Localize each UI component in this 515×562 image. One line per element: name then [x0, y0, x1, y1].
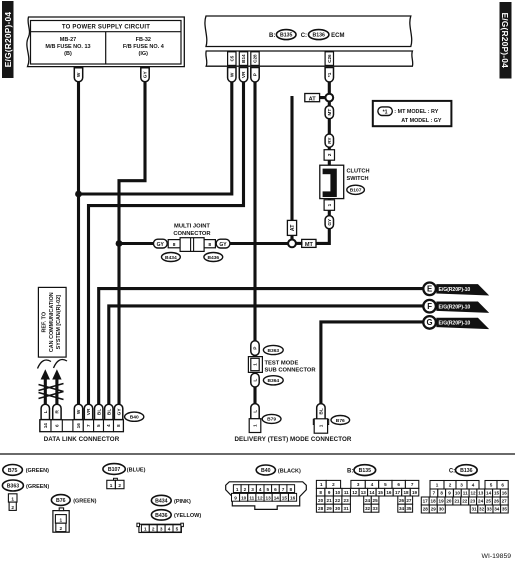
- svg-text:2: 2: [11, 505, 14, 510]
- svg-text:(B): (B): [64, 51, 72, 57]
- svg-text:33: 33: [487, 507, 493, 512]
- svg-text:GY: GY: [116, 408, 122, 416]
- svg-text:DELIVERY (TEST) MODE CONNECTOR: DELIVERY (TEST) MODE CONNECTOR: [234, 436, 351, 443]
- wire label P test mode: [251, 341, 259, 356]
- svg-text:B76: B76: [336, 418, 345, 424]
- svg-text:B107: B107: [108, 467, 121, 473]
- svg-text:16: 16: [290, 496, 296, 501]
- svg-text:2: 2: [327, 153, 332, 156]
- svg-text:19: 19: [439, 499, 445, 504]
- CAN R arrow wire: [52, 369, 61, 405]
- clutch switch B107: [320, 165, 370, 198]
- svg-text:(BLACK): (BLACK): [278, 468, 301, 474]
- svg-text:F: F: [427, 302, 432, 311]
- svg-text:BL: BL: [319, 408, 325, 414]
- page tab E/G(R20P)-04 right: [500, 2, 512, 79]
- svg-text:18: 18: [403, 490, 409, 495]
- svg-text:MT: MT: [305, 242, 314, 248]
- power supply circuit box: [27, 17, 184, 67]
- svg-text:30: 30: [335, 506, 341, 511]
- svg-text:1: 1: [320, 482, 323, 487]
- svg-text:28: 28: [423, 507, 429, 512]
- svg-text:8: 8: [173, 242, 176, 248]
- connector icon B40: [226, 482, 307, 510]
- svg-text:18: 18: [431, 499, 437, 504]
- wire label W ECM: [228, 68, 236, 82]
- svg-text:16: 16: [386, 490, 392, 495]
- wire AT branch upper: [306, 96, 326, 99]
- svg-text:21: 21: [454, 499, 460, 504]
- svg-text:B436: B436: [155, 513, 168, 519]
- wire P from ECM C28 to test mode sub connector: [253, 82, 256, 342]
- svg-text:B40: B40: [261, 468, 271, 474]
- svg-text:7: 7: [86, 424, 91, 427]
- svg-text:B:: B:: [347, 468, 353, 474]
- wire label RY clutch: [325, 134, 333, 147]
- wire label BL DLC pin5: [95, 404, 103, 419]
- svg-text:GY: GY: [157, 242, 165, 248]
- CAN L arrow wire: [41, 369, 50, 405]
- svg-text:L: L: [43, 410, 49, 413]
- svg-text:E: E: [427, 285, 432, 294]
- svg-text:25: 25: [373, 498, 379, 503]
- svg-text:B436: B436: [207, 255, 219, 261]
- arrow flag E E/G(R20P)-10: [423, 283, 489, 296]
- svg-text:5: 5: [176, 527, 179, 532]
- svg-text:GY: GY: [327, 218, 333, 226]
- wire label VR ECM: [239, 68, 247, 82]
- svg-text:1: 1: [253, 363, 258, 366]
- svg-text:31: 31: [344, 506, 350, 511]
- oval B107 legend: [103, 464, 146, 475]
- svg-text:B363: B363: [7, 483, 20, 489]
- ECM box: [205, 16, 413, 66]
- svg-text:E/G(R20P)-10: E/G(R20P)-10: [439, 304, 471, 310]
- svg-text:1: 1: [253, 424, 258, 427]
- connector icon B107: [107, 478, 124, 488]
- data link connector B40 bar: [40, 420, 124, 432]
- svg-text:BL: BL: [96, 409, 102, 415]
- svg-text:G: G: [427, 318, 433, 327]
- MJC pin 8 right: [204, 240, 215, 249]
- svg-text:28: 28: [318, 506, 324, 511]
- wire pin2 to switch: [328, 160, 331, 166]
- svg-text:22: 22: [335, 498, 341, 503]
- arrow flag G E/G(R20P)-10: [423, 316, 489, 329]
- DATA LINK CONNECTOR caption: [44, 436, 120, 443]
- svg-text:14: 14: [43, 423, 48, 429]
- svg-text:24: 24: [478, 499, 484, 504]
- svg-text:27: 27: [502, 499, 508, 504]
- wire label GY DLC: [114, 404, 122, 419]
- oval B436 legend: [151, 510, 201, 520]
- svg-text:4: 4: [371, 482, 374, 487]
- wire MJC run right to junction: [230, 242, 288, 245]
- svg-text:7: 7: [433, 491, 436, 496]
- connector pinout B136: [421, 465, 508, 513]
- junction W: [75, 191, 82, 198]
- connector pinout B135: [316, 465, 418, 513]
- wire RY to pin 2: [328, 147, 331, 151]
- DELIVERY (TEST) MODE CONNECTOR caption: [234, 436, 351, 443]
- wire label L B79: [251, 404, 259, 419]
- wire VR from ECM B14 to DATA LINK pin 7: [89, 82, 244, 406]
- svg-text:11: 11: [344, 490, 349, 495]
- svg-text:CAN COMMUNICATION: CAN COMMUNICATION: [49, 292, 55, 352]
- svg-text:3: 3: [160, 527, 163, 532]
- oval B364: [263, 376, 283, 385]
- svg-text:MULTI JOINT: MULTI JOINT: [174, 224, 210, 230]
- oval B363 legend: [2, 480, 49, 491]
- ECM pin C26: [325, 52, 333, 66]
- svg-text:17: 17: [395, 490, 401, 495]
- svg-text:4: 4: [106, 424, 111, 427]
- svg-text:4: 4: [168, 527, 171, 532]
- svg-text:15: 15: [378, 490, 384, 495]
- svg-text:9: 9: [234, 496, 237, 501]
- svg-text:11: 11: [463, 491, 468, 496]
- svg-text:33: 33: [373, 506, 379, 511]
- wire label BL DLC pin4: [105, 404, 113, 419]
- wire label GY MJC right: [216, 239, 230, 248]
- wire GY from fuse to MJC junction and pin 8: [119, 82, 145, 406]
- svg-text:16: 16: [76, 423, 81, 429]
- svg-text:C26: C26: [327, 54, 332, 63]
- wire label *1 ECM: [325, 68, 333, 83]
- svg-text:C:: C:: [449, 468, 455, 474]
- connector B79 pin 1: [249, 419, 261, 433]
- svg-text:9: 9: [448, 491, 451, 496]
- svg-text:20: 20: [446, 499, 452, 504]
- svg-text:B434: B434: [165, 255, 177, 261]
- svg-text:31: 31: [471, 507, 477, 512]
- svg-text:REF. TO: REF. TO: [41, 312, 47, 333]
- svg-text:AT MODEL : GY: AT MODEL : GY: [401, 118, 442, 124]
- svg-text:22: 22: [462, 499, 468, 504]
- wire label L DLC: [41, 404, 49, 419]
- oval B40 legend: [256, 465, 301, 475]
- svg-text:13: 13: [361, 490, 367, 495]
- wire label R DLC: [53, 404, 61, 419]
- oval B363: [263, 345, 283, 354]
- svg-text:MB-27: MB-27: [60, 37, 77, 43]
- svg-text:B75: B75: [8, 468, 18, 474]
- svg-text:VR: VR: [241, 71, 247, 78]
- svg-text:*1: *1: [383, 110, 388, 116]
- svg-text:2: 2: [59, 526, 62, 531]
- wire W from fuse to DATA LINK pin 16: [77, 82, 80, 406]
- svg-text:2: 2: [449, 483, 452, 488]
- svg-text:20: 20: [318, 498, 324, 503]
- TEST MODE SUB CONNECTOR caption: [265, 360, 317, 373]
- svg-text:W: W: [76, 72, 82, 77]
- svg-text:4: 4: [472, 483, 475, 488]
- svg-text:24: 24: [365, 498, 371, 503]
- svg-text:6: 6: [397, 482, 400, 487]
- svg-text:1: 1: [59, 518, 62, 523]
- svg-text:F/B FUSE NO. 4: F/B FUSE NO. 4: [123, 44, 165, 50]
- wire label GY fuse: [141, 68, 149, 82]
- svg-text:5: 5: [384, 482, 387, 487]
- svg-text:1: 1: [236, 487, 239, 492]
- svg-text:12: 12: [257, 496, 263, 501]
- svg-text:(GREEN): (GREEN): [26, 484, 49, 490]
- svg-text:CLUTCH: CLUTCH: [347, 169, 370, 175]
- svg-text:14: 14: [274, 496, 280, 501]
- svg-text:B79: B79: [267, 417, 276, 423]
- twisted pair break arcs: [38, 360, 68, 369]
- test mode sub connector box: [248, 357, 262, 373]
- svg-text:B40: B40: [130, 415, 139, 421]
- svg-text:CONNECTOR: CONNECTOR: [173, 231, 211, 237]
- svg-text:5: 5: [266, 487, 269, 492]
- svg-text:5: 5: [96, 424, 101, 427]
- wire *1 from ECM C26: [328, 82, 331, 94]
- svg-text:15: 15: [282, 496, 288, 501]
- wire W from ECM C5 jog: [79, 82, 232, 194]
- svg-text:1: 1: [11, 497, 14, 502]
- multi joint connector label: [173, 224, 211, 237]
- svg-text:4: 4: [259, 487, 262, 492]
- svg-text:C:: C:: [301, 33, 307, 39]
- svg-text:6: 6: [501, 483, 504, 488]
- svg-text:8: 8: [319, 490, 322, 495]
- svg-text:23: 23: [344, 498, 350, 503]
- svg-text:17: 17: [423, 499, 429, 504]
- wire label MT below C26: [325, 101, 333, 118]
- connector icon B75/B363: [8, 494, 17, 511]
- svg-text:27: 27: [406, 498, 412, 503]
- svg-text:B135: B135: [280, 33, 293, 39]
- svg-text:B76: B76: [56, 498, 66, 504]
- svg-text:(IG): (IG): [139, 51, 149, 57]
- svg-text:30: 30: [439, 507, 445, 512]
- wire AT bypass left vertical: [292, 98, 294, 240]
- svg-text:VR: VR: [86, 408, 92, 415]
- svg-text:TEST MODE: TEST MODE: [265, 360, 299, 366]
- page tab E/G(R20P)-04 left: [2, 1, 14, 78]
- svg-text:10: 10: [335, 490, 341, 495]
- wire label W DLC: [74, 404, 82, 419]
- svg-text:FB-32: FB-32: [136, 37, 151, 43]
- svg-text:3: 3: [460, 483, 463, 488]
- svg-text:3: 3: [251, 487, 254, 492]
- svg-text:2: 2: [152, 527, 155, 532]
- svg-text:W: W: [230, 72, 236, 77]
- svg-text:2: 2: [118, 483, 121, 488]
- svg-text:8: 8: [289, 487, 292, 492]
- svg-text:B14: B14: [241, 54, 246, 63]
- svg-text:26: 26: [399, 498, 405, 503]
- twisted pair crossover: [39, 384, 64, 400]
- svg-text:25: 25: [486, 499, 492, 504]
- svg-text:L: L: [253, 410, 259, 413]
- svg-text:BL: BL: [107, 409, 113, 415]
- section divider: [0, 453, 515, 455]
- svg-text:DATA LINK CONNECTOR: DATA LINK CONNECTOR: [44, 436, 120, 443]
- svg-text:SYSTEM [CAN(R)-02]: SYSTEM [CAN(R)-02]: [56, 295, 62, 349]
- svg-text:13: 13: [265, 496, 271, 501]
- svg-text:(GREEN): (GREEN): [26, 468, 49, 474]
- junction node MT/AT: [288, 240, 296, 248]
- svg-text:B434: B434: [155, 498, 168, 504]
- wire label BL B76: [317, 404, 325, 420]
- svg-text:1: 1: [319, 424, 324, 427]
- svg-text:*1: *1: [327, 72, 333, 77]
- junction node C26: [325, 94, 333, 102]
- ECM pin C5: [228, 52, 236, 66]
- svg-text:P: P: [253, 72, 259, 76]
- svg-text:1: 1: [327, 203, 332, 206]
- svg-text:10: 10: [241, 496, 247, 501]
- svg-text:29: 29: [327, 506, 333, 511]
- clutch switch pin 2: [324, 150, 334, 161]
- connector icon B434/B436 5pin: [137, 523, 184, 532]
- svg-text:C28: C28: [253, 54, 258, 63]
- figure number WI-19859: [482, 553, 512, 560]
- svg-text:(GREEN): (GREEN): [73, 498, 96, 504]
- svg-text:AT: AT: [309, 96, 317, 102]
- svg-text:AT: AT: [290, 224, 296, 231]
- svg-text:E/G(R20P)-10: E/G(R20P)-10: [439, 287, 471, 293]
- wire label VR DLC: [84, 404, 92, 419]
- svg-text:E/G(R20P)-04: E/G(R20P)-04: [3, 12, 13, 68]
- svg-text:8: 8: [440, 491, 443, 496]
- svg-text:(YELLOW): (YELLOW): [174, 513, 201, 519]
- svg-text:(BLUE): (BLUE): [127, 467, 146, 473]
- svg-text:1: 1: [110, 483, 113, 488]
- wire label P ECM: [251, 68, 259, 83]
- wire label GY MJC left: [154, 239, 168, 248]
- wire label GY clutch: [325, 210, 333, 229]
- svg-text:26: 26: [494, 499, 500, 504]
- oval B434 legend: [151, 495, 191, 505]
- svg-text:B107: B107: [350, 188, 362, 194]
- svg-text:B364: B364: [267, 378, 279, 384]
- svg-text:14: 14: [369, 490, 375, 495]
- svg-text:34: 34: [399, 506, 405, 511]
- svg-text:34: 34: [494, 507, 500, 512]
- svg-text:E/G(R20P)-10: E/G(R20P)-10: [439, 321, 471, 327]
- wire GY clutch down to MT box: [317, 228, 330, 243]
- svg-text:14: 14: [486, 491, 492, 496]
- MJC pin 8 left: [168, 240, 180, 249]
- svg-text:2: 2: [332, 482, 335, 487]
- svg-text:L: L: [253, 379, 259, 382]
- svg-text:SWITCH: SWITCH: [347, 176, 369, 182]
- svg-text:2: 2: [244, 487, 247, 492]
- svg-text:W: W: [76, 409, 82, 414]
- AT box upper: [305, 94, 320, 103]
- svg-text:15: 15: [494, 491, 500, 496]
- svg-text:21: 21: [327, 498, 333, 503]
- svg-text:WI-19859: WI-19859: [482, 553, 512, 560]
- svg-text:8: 8: [208, 242, 211, 248]
- svg-text:6: 6: [54, 424, 59, 427]
- wire L to B79: [253, 387, 256, 405]
- ECM pin B14: [239, 52, 247, 66]
- svg-text:B136: B136: [312, 33, 325, 39]
- svg-text:32: 32: [365, 506, 371, 511]
- ref to CAN communication system box: [38, 287, 66, 357]
- svg-text:35: 35: [502, 507, 508, 512]
- svg-text:1: 1: [144, 527, 147, 532]
- svg-text:TO POWER SUPPLY CIRCUIT: TO POWER SUPPLY CIRCUIT: [62, 24, 150, 30]
- wire MJC run left: [119, 242, 155, 245]
- svg-text:12: 12: [470, 491, 476, 496]
- svg-text:(PINK): (PINK): [174, 499, 191, 505]
- svg-text:R: R: [55, 410, 61, 414]
- svg-text:29: 29: [431, 507, 437, 512]
- svg-text:19: 19: [412, 490, 418, 495]
- connector icon B76: [53, 508, 69, 532]
- svg-text:3: 3: [357, 482, 360, 487]
- svg-text:: MT MODEL : RY: : MT MODEL : RY: [394, 109, 438, 115]
- svg-text:16: 16: [502, 491, 508, 496]
- oval B436: [204, 253, 223, 262]
- svg-text:8: 8: [116, 424, 121, 427]
- oval B434: [162, 253, 181, 262]
- oval B76 legend: [51, 495, 96, 506]
- svg-text:B135: B135: [359, 468, 372, 474]
- ECM pin C28: [251, 52, 259, 66]
- svg-text:5: 5: [490, 483, 493, 488]
- wire E branch: [99, 289, 424, 406]
- wire MT box to junction: [296, 242, 303, 245]
- svg-text:10: 10: [455, 491, 461, 496]
- svg-text:1: 1: [436, 483, 439, 488]
- svg-text:7: 7: [282, 487, 285, 492]
- svg-text:13: 13: [478, 491, 484, 496]
- svg-text:11: 11: [249, 496, 254, 501]
- MT box lower: [302, 239, 316, 248]
- wire label W fuse: [74, 68, 82, 82]
- svg-text:MT: MT: [327, 109, 333, 116]
- wire MT to RY: [328, 118, 331, 135]
- note box *1 MT/AT model: [373, 101, 452, 126]
- AT box lower: [287, 220, 296, 235]
- oval B79: [262, 414, 281, 423]
- oval B76 upper: [331, 416, 350, 425]
- multi joint connector B434/B436: [180, 238, 204, 252]
- svg-text:32: 32: [479, 507, 485, 512]
- oval B75 legend: [3, 465, 49, 476]
- svg-text:35: 35: [406, 506, 412, 511]
- svg-text:23: 23: [470, 499, 476, 504]
- wire F branch: [109, 306, 424, 406]
- svg-text:B363: B363: [267, 348, 279, 354]
- svg-text:B:: B:: [269, 33, 275, 39]
- wire G branch: [321, 322, 423, 405]
- svg-text:6: 6: [274, 487, 277, 492]
- svg-text:M/B FUSE NO. 13: M/B FUSE NO. 13: [45, 44, 90, 50]
- connector B76 pin 1: [313, 419, 328, 433]
- arrow flag F E/G(R20P)-10: [423, 300, 489, 313]
- junction GY: [116, 240, 123, 247]
- svg-text:GY: GY: [143, 71, 149, 79]
- svg-text:C5: C5: [230, 55, 235, 61]
- svg-text:9: 9: [328, 490, 331, 495]
- oval B40 at DLC: [125, 412, 144, 421]
- svg-text:B136: B136: [460, 468, 473, 474]
- svg-text:7: 7: [411, 482, 414, 487]
- svg-text:GY: GY: [219, 242, 227, 248]
- svg-text:RY: RY: [327, 137, 333, 144]
- svg-text:E/G(R20P)-04: E/G(R20P)-04: [500, 12, 510, 68]
- svg-text:ECM: ECM: [331, 33, 344, 39]
- clutch switch pin 1: [324, 199, 334, 211]
- wire label L below test mode connector: [251, 373, 259, 387]
